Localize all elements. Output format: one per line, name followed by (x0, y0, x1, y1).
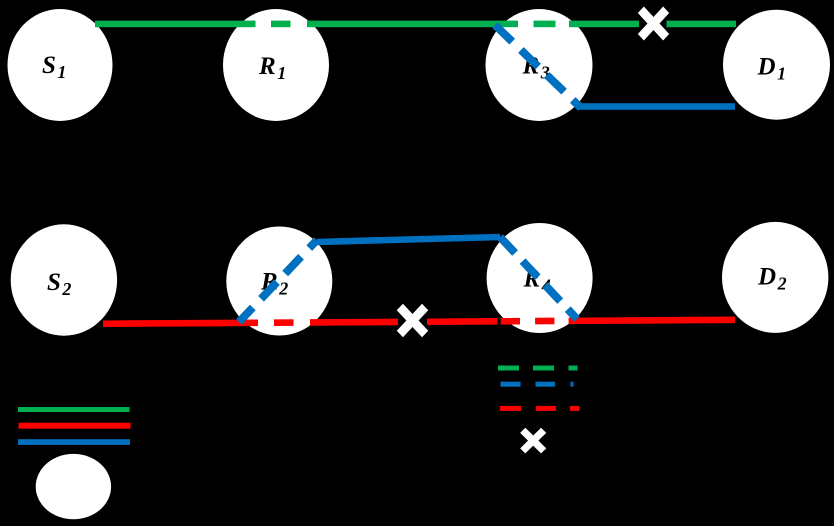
wire: red path failure X to R4 edge (solid) (427, 318, 497, 325)
wire: green path R1 to R3 interior (solid) (307, 21, 518, 28)
legend: blue dashed line (501, 382, 574, 387)
node S1 (8, 9, 113, 121)
wire: green path failure X to D1 (solid) (667, 21, 737, 28)
wire: red path dash across R2 (274, 319, 294, 326)
failure X on green link R3-D1 (638, 6, 669, 40)
failure X on red link R2-R4 (397, 304, 428, 338)
legend: red dashed line (500, 406, 580, 411)
wire: blue backup path R3 to D1 (solid) (578, 103, 735, 110)
node S2 (11, 224, 117, 335)
legend: node circle (36, 454, 111, 519)
wire: green path dash across R3 (534, 21, 556, 28)
wire: green path dash across R1 (271, 21, 291, 28)
node R4 (487, 223, 593, 333)
wire: green path R3 to failure X (solid) (569, 21, 639, 28)
wire: red path R2 to failure X (solid) (310, 319, 398, 326)
node D1 (723, 10, 830, 120)
wire: blue backup dashed diagonal across R3 (495, 25, 581, 108)
legend: failure X symbol (520, 428, 546, 454)
node R3 (486, 9, 593, 121)
wire: blue backup path R2 to R4 (solid) (317, 234, 500, 246)
legend: red solid line (primary path 2) (19, 423, 131, 429)
node R1 (223, 9, 329, 121)
legend: green dashed line (498, 366, 578, 371)
node D2 (722, 222, 828, 333)
wire: red path R4 to D2 (solid) (569, 317, 735, 325)
wire: blue backup dashed diagonal across R4 (500, 237, 577, 319)
wire: blue backup dashed diagonal across R2 (239, 240, 317, 322)
wire: red path dashes across R4 (501, 318, 555, 325)
wire: green path S1 across R1 left edge (solid) (95, 21, 256, 28)
wire: red path S2 across R2 left edge (solid) (103, 319, 258, 327)
legend: green solid line (primary path 1) (18, 407, 130, 412)
legend: blue solid line (backup path) (18, 439, 130, 445)
node R2 (226, 227, 332, 336)
